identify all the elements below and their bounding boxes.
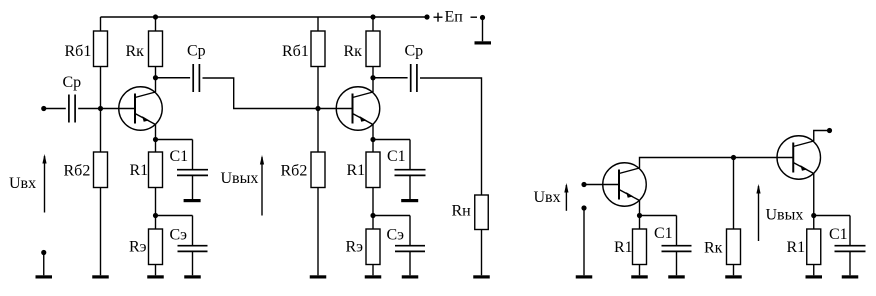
junction: rail end xyxy=(424,14,429,19)
svg-text:C1: C1 xyxy=(387,148,406,165)
resistor Rб2 (stage 2) xyxy=(311,109,325,276)
ground under Rэ stage 1 xyxy=(147,275,164,278)
svg-text:Rб2: Rб2 xyxy=(281,163,308,180)
resistor Rэ (stage 1) xyxy=(149,216,163,276)
ground under Rб2 stage 1 xyxy=(92,275,109,278)
transistor Q4 xyxy=(777,136,821,216)
junction: Q2 collector node xyxy=(370,75,375,80)
terminal: right input top xyxy=(581,182,586,187)
transistor Q3 xyxy=(603,163,647,216)
wire Cр2 to Q2 base node xyxy=(203,78,319,109)
ground under Rн xyxy=(473,275,490,278)
resistor R1 (stage 2) xyxy=(366,140,380,216)
capacitor Cр2 (interstage coupling) xyxy=(193,64,199,92)
wire Q2 base xyxy=(318,108,353,110)
resistor R1 (Q3 emitter) xyxy=(633,216,647,276)
capacitor C1 (Q4) xyxy=(835,216,866,276)
svg-text:Rб1: Rб1 xyxy=(65,43,92,60)
ground under R1 right 2 xyxy=(806,275,823,278)
resistor Rк1 xyxy=(149,17,163,78)
svg-text:R1: R1 xyxy=(347,162,366,179)
resistor Rк (right) xyxy=(727,158,741,276)
svg-text:Cэ: Cэ xyxy=(387,227,405,244)
wire Q4 emitter node to C1 xyxy=(814,215,850,217)
arrow Uвх xyxy=(42,154,46,213)
svg-text:R1: R1 xyxy=(614,239,633,256)
capacitor Cр1 (input coupling) xyxy=(69,95,75,123)
junction: Q4 base node / Rк xyxy=(731,155,736,160)
wire Q2 collector to Cр3 xyxy=(373,77,408,79)
wire Cр1 to Q1 base node xyxy=(78,108,100,110)
ground under Cэ stage 1 xyxy=(184,275,201,278)
ground under C1 right 1 xyxy=(668,275,685,278)
svg-text:Rб1: Rб1 xyxy=(282,43,309,60)
transistor Q2 xyxy=(336,78,380,140)
svg-text:Uвых: Uвых xyxy=(221,170,259,187)
wire Q1 base xyxy=(101,108,136,110)
resistor R1 (Q4 emitter) xyxy=(807,216,821,276)
resistor Rб2 (stage 1) xyxy=(94,109,108,276)
wire Q1 emitter node to C1 xyxy=(156,139,193,141)
resistor Rк2 xyxy=(366,17,380,78)
wire node to Cэ stage 1 xyxy=(156,215,193,217)
capacitor Cэ (stage 2) xyxy=(395,216,425,276)
wire Q2 emitter node to C1 xyxy=(373,139,410,141)
wire right input to Q3 base xyxy=(584,184,619,186)
wire Q3 emitter node to C1 xyxy=(640,215,677,217)
wire input bottom to ground xyxy=(43,253,45,276)
wire Q3 collector to Q4 base xyxy=(640,158,794,169)
wire Q4 collector to output xyxy=(814,131,830,142)
junction: rail / Rк2 xyxy=(370,14,375,19)
junction: R1/Rэ node stage 2 xyxy=(370,213,375,218)
svg-text:Rк: Rк xyxy=(704,240,723,257)
wire Q1 collector to Cр2 xyxy=(156,77,191,79)
wire +Eп supply rail xyxy=(101,16,428,18)
junction: Q2 base / divider xyxy=(315,106,320,111)
terminal: input top xyxy=(41,106,46,111)
ground under Rб2 stage 2 xyxy=(310,275,327,278)
junction: Q1 emitter node xyxy=(153,137,158,142)
ground under C1 right 2 xyxy=(842,275,859,278)
transistor Q1 xyxy=(119,78,163,140)
ground under C1 stage 1 xyxy=(184,199,201,202)
wire input to Cр1 xyxy=(44,108,66,110)
svg-text:C1: C1 xyxy=(654,225,673,242)
resistor Rб1 (stage 2) xyxy=(311,17,325,109)
ground under C1 stage 2 xyxy=(401,199,418,202)
resistor Rн (load) xyxy=(475,195,489,275)
svg-text:Cр: Cр xyxy=(63,74,82,91)
svg-text:Cэ: Cэ xyxy=(170,227,188,244)
label +Eп xyxy=(434,9,478,26)
svg-text:R1: R1 xyxy=(787,239,806,256)
capacitor C1 (stage 2) xyxy=(395,140,426,200)
arrow Uвх right xyxy=(564,183,568,211)
wire node to Cэ stage 2 xyxy=(373,215,410,217)
capacitor C1 (Q3) xyxy=(662,216,692,276)
ground under Rэ stage 2 xyxy=(365,275,382,278)
junction: Q1 collector node xyxy=(153,75,158,80)
svg-text:Rэ: Rэ xyxy=(129,239,147,256)
resistor R1 (stage 1) xyxy=(149,140,163,216)
resistor Rб1 (stage 1) xyxy=(94,17,108,109)
resistor Rэ (stage 2) xyxy=(366,216,380,276)
power terminal +Eп xyxy=(475,15,492,45)
wire Cр3 to load Rн xyxy=(420,78,482,195)
junction: R1/Rэ node stage 1 xyxy=(153,213,158,218)
junction: Q1 base / divider xyxy=(98,106,103,111)
terminal: input bottom xyxy=(41,250,46,255)
junction: rail / Rк1 xyxy=(153,14,158,19)
junction: Q2 emitter node xyxy=(370,137,375,142)
svg-text:Uвых: Uвых xyxy=(766,207,804,224)
junction: Q4 emitter node xyxy=(811,213,816,218)
ground right input xyxy=(576,275,593,278)
svg-text:Rк: Rк xyxy=(344,43,363,60)
wire right input bottom to ground xyxy=(583,208,585,275)
svg-text:Rб2: Rб2 xyxy=(64,163,91,180)
svg-text:Rк: Rк xyxy=(126,43,145,60)
junction: Q3 emitter node xyxy=(637,213,642,218)
capacitor C1 (stage 1) xyxy=(177,140,208,200)
arrow Uвых stage 1 xyxy=(260,155,264,216)
svg-text:Cр: Cр xyxy=(405,43,424,60)
ground under Rк right xyxy=(725,275,742,278)
svg-text:Uвх: Uвх xyxy=(9,175,36,192)
ground under Cэ stage 2 xyxy=(402,275,419,278)
terminal: right input bottom xyxy=(581,205,586,210)
capacitor Cр3 (output coupling) xyxy=(411,64,417,92)
svg-text:C1: C1 xyxy=(170,148,189,165)
terminal: output xyxy=(827,128,832,133)
ground under R1 right 1 xyxy=(631,275,648,278)
capacitor Cэ (stage 1) xyxy=(178,216,208,276)
svg-text:Eп: Eп xyxy=(445,9,464,26)
svg-text:Rэ: Rэ xyxy=(346,239,364,256)
svg-text:Cр: Cр xyxy=(187,43,206,60)
svg-text:R1: R1 xyxy=(130,162,149,179)
svg-text:C1: C1 xyxy=(829,226,848,243)
arrow Uвых right xyxy=(756,184,760,241)
svg-text:Rн: Rн xyxy=(452,203,472,220)
svg-text:Uвх: Uвх xyxy=(534,189,561,206)
ground at input xyxy=(36,275,53,278)
